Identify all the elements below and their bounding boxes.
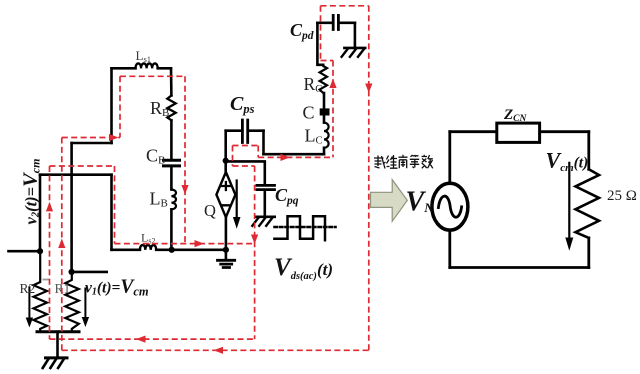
wire thevenin right vertical bottom [587, 238, 590, 268]
red arrow up on x333 [329, 79, 336, 89]
wire LB to bottom rail [170, 209, 173, 250]
arrow down beside R2 [28, 287, 30, 318]
inductor Ls1 [135, 63, 157, 68]
wire RB top lead [170, 68, 173, 95]
noise path vertical x333 along LC C RC [332, 61, 334, 158]
arrow beside Q [236, 181, 238, 219]
node junction LB bottom [169, 247, 175, 253]
label thevenin chinese [374, 155, 433, 169]
svg-text:R2: R2 [20, 281, 36, 296]
resistor R1 [65, 272, 79, 332]
noise path vertical x114 [114, 166, 116, 244]
noise path vertical x258 [257, 146, 259, 158]
noise path vertical x254 through Cpq ground [254, 166, 256, 339]
wire thevenin left vertical top [448, 132, 451, 184]
svg-text:Q: Q [204, 201, 216, 220]
square wave Vds(ac) [274, 216, 325, 240]
noise path vertical x62 through R1 [61, 138, 63, 351]
wire node A down to Q [224, 161, 227, 175]
node junction R1 top [69, 269, 75, 275]
hanzi dai [374, 156, 386, 169]
wire thevenin right vertical top [587, 132, 590, 170]
ground (chassis) at Cpq [255, 216, 274, 219]
polarity dash above R2 [43, 279, 50, 281]
noise path jog y60 [321, 60, 334, 62]
capacitor Cpq [257, 185, 275, 189]
svg-text:25 Ω: 25 Ω [607, 188, 637, 204]
red arrow up on x49 [46, 202, 53, 212]
noise path horizontal y166 left [50, 165, 115, 167]
wire top left horizontal (Ls1 branch) [112, 67, 172, 70]
red arrow left on y350 [214, 347, 224, 354]
node A junction dot at Q top [223, 158, 229, 164]
hanzi deng [410, 155, 419, 168]
arrowhead Vcm(t) [565, 238, 573, 251]
hanzi nan [399, 155, 408, 169]
noise path horizontal y166 right at Cpq [233, 165, 255, 167]
resistor RB [167, 96, 175, 121]
node junction Q bottom [223, 247, 229, 253]
arrowhead beside R2 [26, 318, 33, 328]
capacitor CB [164, 160, 180, 166]
ground (chassis) below R1 R2 [46, 356, 68, 359]
wire LC to C [323, 116, 326, 123]
hanzi xiao [422, 155, 433, 169]
noise path top-left loop top [120, 75, 185, 77]
hanzi wei [387, 155, 398, 168]
wire ground stem [56, 332, 59, 358]
wire v2 horizontal rail [40, 173, 112, 176]
inductor Ls2 [140, 245, 156, 250]
source VN circle [432, 183, 468, 230]
impedance ZCN box [497, 123, 540, 142]
capacitor Cps [226, 129, 264, 132]
wire bottom rail left part [112, 249, 226, 252]
wire horizontal to LC branch [264, 153, 325, 156]
noise path vertical x320 [320, 6, 322, 61]
wire horizontal jog at y143 [72, 142, 112, 145]
noise path vertical x185 through RB CB [184, 76, 186, 243]
inductor LB [171, 190, 176, 210]
svg-text:C: C [303, 103, 315, 123]
wire vertical x111.5 from v2 rail down to bottom rail [110, 175, 113, 250]
wire LC bottom lead [323, 148, 326, 154]
resistor 25 ohm [576, 169, 600, 238]
red arrow down on x368 [365, 84, 372, 94]
noise path vertical x49 through R2 [49, 166, 51, 339]
block arrow (thevenin equivalent) [371, 180, 408, 222]
noise path horizontal y137 [62, 137, 120, 139]
wire thevenin bottom rail [450, 266, 589, 269]
wire left vertical from Ls1 [110, 68, 113, 143]
arrow Vcm(t) [568, 163, 570, 240]
source VN sine [438, 196, 461, 217]
noise path horizontal y145 under Cps [233, 145, 259, 147]
noise path bottom rail y350 [62, 349, 369, 351]
wire Cps left vertical (node A to cap) [224, 131, 227, 161]
wire RB to CB [170, 120, 173, 159]
noise path horizontal y157 to LC [258, 156, 333, 158]
noise path bottom rail y339 [50, 338, 255, 340]
node junction R2 top [37, 248, 43, 254]
capacitor C (solid block) [320, 108, 330, 115]
arrowhead beside Q [233, 217, 241, 229]
wire Cpq to ground [263, 191, 266, 217]
transistor Q (dependent source diamond) [216, 172, 235, 217]
ground (3-bar) under Q [225, 250, 228, 260]
dotted reference line [275, 226, 336, 229]
ground (chassis) at Cpd [344, 47, 365, 50]
red arrow left on y339 [136, 336, 146, 343]
red arrow down on x185 [181, 185, 188, 195]
wire v2 vertical down to R2 [39, 175, 42, 252]
inductor LC [324, 123, 329, 148]
wire RC jog to Cpd left vertical [317, 23, 323, 65]
red arrow up on x62 [58, 239, 65, 249]
wire Q bottom to rail [225, 217, 228, 250]
noise path horizontal y243 [115, 243, 255, 245]
wire thevenin top rail [450, 130, 589, 133]
wire C to RC [323, 93, 326, 108]
wire thevenin left vertical bottom [448, 230, 451, 268]
resistor RC [320, 65, 327, 93]
wire input stub left edge [9, 250, 41, 253]
wire node A to Cpq [226, 161, 265, 184]
arrow down beside R1 [84, 289, 86, 319]
red arrow down on x254 [251, 235, 258, 245]
red arrow right on y137 [109, 134, 119, 141]
red arrow right on y243 [195, 240, 205, 247]
noise path horizontal y5.8 over Cpd [321, 5, 369, 7]
wire Cpd right vertical [354, 23, 357, 48]
noise path vertical x368 right return [368, 6, 370, 351]
red arrow right on y157 [281, 154, 291, 161]
arrowhead beside R1 [82, 317, 89, 327]
noise path vertical x232 [232, 146, 234, 167]
wire vertical down to R1 top [70, 143, 73, 272]
resistor R2 [34, 251, 48, 332]
wire CB to LB [170, 167, 173, 190]
wire v1 stub [72, 271, 107, 274]
wire resistor bottom bar [37, 330, 79, 333]
noise path top-left loop left vertical [119, 76, 121, 137]
wire Cps right vertical [262, 131, 265, 155]
capacitor Cpd [317, 21, 355, 24]
